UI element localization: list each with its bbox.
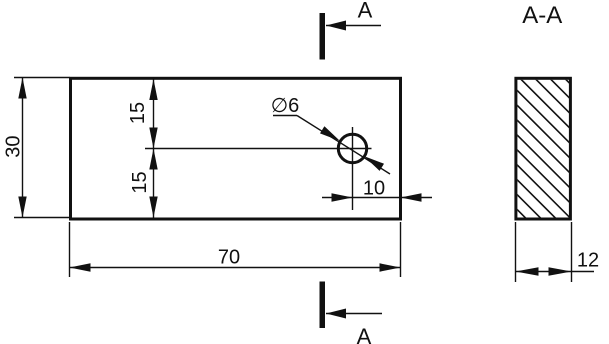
svg-text:70: 70 bbox=[218, 247, 240, 269]
arrowhead 12 left bbox=[516, 267, 539, 275]
arrowhead 30 top bbox=[18, 78, 26, 99]
dimension line 70 bbox=[70, 267, 401, 269]
arrowhead 15 upper bottom bbox=[149, 128, 157, 149]
dimension line 15 lower bbox=[153, 149, 155, 218]
section A-A outline bbox=[516, 78, 571, 219]
extension line right (12 dim) bbox=[571, 222, 573, 282]
svg-text:30: 30 bbox=[2, 135, 24, 157]
svg-text:A-A: A-A bbox=[522, 2, 562, 29]
arrowhead leader Ø6 upper bbox=[320, 126, 340, 141]
svg-text:A: A bbox=[358, 0, 373, 23]
section cut thick bar bottom bbox=[320, 282, 326, 329]
dimension line 30 bbox=[22, 78, 24, 218]
arrowhead 10 right bbox=[401, 193, 422, 201]
leader underline Ø6 bbox=[273, 115, 297, 117]
arrowhead 70 left bbox=[70, 263, 91, 271]
svg-text:A: A bbox=[357, 324, 372, 344]
arrowhead 15 upper top bbox=[149, 79, 157, 100]
arrowhead section cut top bbox=[326, 21, 346, 31]
svg-text:15: 15 bbox=[129, 171, 151, 193]
svg-text:10: 10 bbox=[363, 178, 385, 200]
dimension line 12 bbox=[516, 271, 595, 273]
svg-text:∅6: ∅6 bbox=[271, 95, 300, 117]
arrowhead leader Ø6 lower bbox=[364, 156, 384, 171]
extension line bottom-left (30 dim) bbox=[14, 217, 70, 219]
leader line Ø6 bbox=[297, 116, 390, 175]
svg-text:12: 12 bbox=[577, 250, 599, 272]
extension line left (70 dim) bbox=[69, 222, 71, 277]
hatching of section A-A bbox=[500, 14, 590, 298]
arrowhead 15 lower bottom bbox=[149, 197, 157, 218]
plate outline bbox=[71, 78, 401, 219]
extension line top-left (30 dim) bbox=[14, 77, 70, 79]
extension line right (70 dim) bbox=[400, 222, 402, 277]
svg-text:15: 15 bbox=[127, 102, 149, 124]
centerline vertical of hole bbox=[352, 127, 354, 210]
section cut arrow line bottom bbox=[326, 313, 382, 315]
dimension line 10 bbox=[322, 197, 432, 199]
arrowhead 30 bottom bbox=[18, 197, 26, 218]
arrowhead 70 right bbox=[380, 263, 401, 271]
dimension line 15 upper bbox=[153, 79, 155, 149]
arrowhead section cut bottom bbox=[326, 309, 346, 319]
arrowhead 10 left bbox=[332, 193, 353, 201]
arrowhead 15 lower top bbox=[149, 149, 157, 170]
section cut arrow line top bbox=[326, 25, 381, 27]
extension line left (12 dim) bbox=[515, 222, 517, 282]
centerline horizontal of hole bbox=[145, 148, 372, 150]
hole Ø6 bbox=[338, 134, 366, 162]
section cut thick bar top bbox=[320, 13, 326, 60]
arrowhead 12 right bbox=[549, 267, 572, 275]
